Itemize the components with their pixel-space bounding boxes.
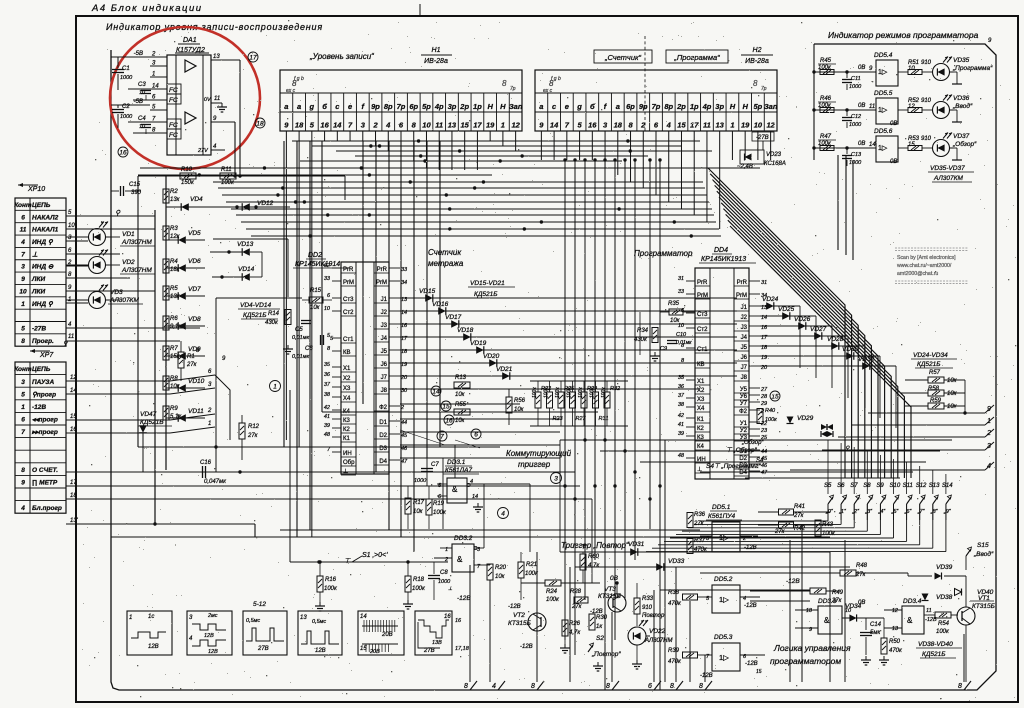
svg-text:12: 12: [892, 608, 898, 614]
svg-text:0,01мк: 0,01мк: [676, 340, 692, 346]
svg-text:VD40: VD40: [977, 589, 994, 596]
svg-text:470к: 470к: [889, 648, 903, 654]
svg-text:4р: 4р: [702, 102, 712, 111]
svg-text:R27: R27: [576, 416, 587, 422]
svg-text:DD2: DD2: [308, 252, 322, 259]
svg-text:„3“: „3“: [864, 509, 873, 515]
svg-text:14: 14: [432, 388, 440, 395]
svg-text:4,7к: 4,7к: [588, 563, 600, 569]
svg-text:S11: S11: [903, 483, 913, 489]
svg-text:C1: C1: [122, 66, 130, 72]
svg-text:Ст1: Ст1: [343, 337, 354, 343]
svg-text:23: 23: [760, 428, 768, 434]
svg-text:VD20: VD20: [483, 353, 500, 360]
svg-text:44: 44: [401, 420, 407, 426]
svg-text:8: 8: [21, 338, 25, 345]
svg-text:J4: J4: [741, 335, 748, 341]
svg-text:10к: 10к: [455, 392, 466, 398]
svg-text:„Обзор“: „Обзор“: [741, 440, 764, 446]
svg-text:C2: C2: [122, 104, 130, 110]
svg-text:38: 38: [678, 402, 685, 408]
svg-text:R39: R39: [668, 648, 680, 654]
svg-text:а: а: [297, 102, 301, 111]
svg-text:C15: C15: [129, 182, 141, 188]
svg-text:R32: R32: [610, 386, 620, 392]
svg-text:6: 6: [648, 683, 652, 690]
svg-text:VD4: VD4: [190, 196, 203, 203]
svg-text:DD5.4: DD5.4: [874, 52, 893, 59]
svg-text:1000: 1000: [849, 122, 862, 128]
svg-text:910: 910: [921, 98, 932, 104]
svg-text:16: 16: [444, 614, 451, 620]
svg-text:C7: C7: [431, 462, 439, 468]
svg-text:~2,4В: ~2,4В: [737, 164, 753, 170]
svg-text:⊥: ⊥: [448, 586, 452, 592]
svg-text:10к: 10к: [170, 384, 181, 390]
svg-text:8: 8: [670, 683, 674, 690]
svg-text:⊤ „Обзор“: ⊤ „Обзор“: [726, 446, 758, 454]
svg-text:36: 36: [678, 384, 685, 390]
svg-text:⊤: ⊤: [580, 544, 587, 551]
svg-text:ИВ-28а: ИВ-28а: [745, 58, 769, 65]
svg-text:13к: 13к: [170, 197, 181, 203]
svg-text:Обр: Обр: [343, 460, 355, 466]
svg-text:150к: 150к: [181, 180, 195, 186]
svg-text:9: 9: [21, 480, 25, 487]
svg-text:VD39: VD39: [936, 564, 953, 571]
svg-text:АЛ307НМ: АЛ307НМ: [644, 638, 672, 644]
svg-text:VD37: VD37: [953, 133, 970, 140]
svg-text:1000: 1000: [849, 160, 862, 166]
svg-text:КД521Б: КД521Б: [474, 291, 497, 298]
svg-text:7р: 7р: [761, 86, 767, 92]
svg-text:27V: 27V: [197, 148, 209, 154]
svg-text:ИНД ⚲: ИНД ⚲: [32, 239, 54, 246]
svg-text:470к: 470к: [668, 659, 682, 665]
svg-text:X1: X1: [697, 379, 705, 385]
svg-text:„Ввод“: „Ввод“: [973, 550, 994, 558]
svg-text:VD35: VD35: [953, 57, 970, 64]
svg-text:12: 12: [511, 121, 520, 130]
svg-text:29: 29: [760, 401, 767, 407]
svg-text:НАКАЛ1: НАКАЛ1: [32, 227, 59, 234]
svg-text:17,18: 17,18: [455, 646, 470, 652]
svg-text:PrМ: PrМ: [376, 280, 387, 286]
svg-text:R15: R15: [310, 288, 322, 294]
svg-text:КВ: КВ: [343, 350, 351, 356]
svg-text:⚲прогр: ⚲прогр: [32, 391, 56, 398]
svg-text:R41: R41: [794, 504, 805, 510]
svg-text:27: 27: [760, 387, 768, 393]
svg-text:PrМ: PrМ: [343, 280, 354, 286]
svg-text:„Программа“: „Программа“: [952, 65, 993, 72]
svg-text:DD3.2: DD3.2: [454, 535, 473, 542]
svg-text:19: 19: [741, 121, 750, 130]
svg-text:10к: 10к: [670, 318, 681, 324]
svg-text:ЦЕПЬ: ЦЕПЬ: [32, 366, 51, 373]
svg-text:2р: 2р: [459, 102, 469, 111]
svg-text:DD5.6: DD5.6: [874, 128, 893, 135]
svg-text:VD27: VD27: [810, 326, 827, 333]
svg-text:41: 41: [324, 414, 330, 420]
svg-text:VD22: VD22: [649, 628, 666, 635]
svg-text:4: 4: [385, 121, 391, 130]
svg-text:ИН: ИН: [343, 451, 352, 457]
svg-text:VD30: VD30: [842, 346, 859, 353]
svg-text:R3: R3: [170, 226, 178, 232]
svg-text:6: 6: [21, 417, 25, 424]
svg-text:8: 8: [606, 683, 610, 690]
svg-text:Конт: Конт: [14, 202, 32, 209]
svg-text:„0“: „0“: [825, 509, 834, 515]
svg-text:Н2: Н2: [753, 47, 762, 54]
svg-text:К1: К1: [697, 417, 704, 423]
svg-text:10к: 10к: [947, 391, 958, 397]
svg-text:2: 2: [400, 405, 404, 411]
svg-text:15: 15: [756, 669, 762, 675]
svg-text:VD4-VD14: VD4-VD14: [240, 302, 271, 309]
svg-text:J6: J6: [741, 355, 748, 361]
svg-text:D4: D4: [739, 470, 747, 476]
svg-text:⊥: ⊥: [32, 251, 38, 258]
svg-text:PrR: PrR: [343, 267, 354, 273]
svg-text:VD16: VD16: [432, 301, 449, 308]
svg-text:J5: J5: [741, 345, 748, 351]
svg-text:10к: 10к: [413, 509, 424, 515]
svg-text:16: 16: [320, 121, 329, 130]
svg-text:1: 1: [152, 72, 155, 78]
svg-text:⊥: ⊥: [343, 468, 348, 475]
svg-text:КТ315Б: КТ315Б: [508, 620, 531, 627]
svg-text:20В: 20В: [369, 649, 380, 655]
svg-text:„8“: „8“: [930, 509, 939, 515]
svg-text:VD18: VD18: [457, 327, 474, 334]
svg-text:12: 12: [766, 121, 775, 130]
svg-text:S4: S4: [756, 458, 764, 464]
svg-text:48: 48: [678, 453, 685, 459]
svg-text:ЛКИ: ЛКИ: [31, 276, 45, 283]
svg-text:14: 14: [360, 614, 367, 620]
svg-text:1▷: 1▷: [878, 145, 888, 152]
svg-text:5р: 5р: [754, 102, 763, 111]
svg-text:R5: R5: [170, 286, 178, 292]
svg-text:7: 7: [21, 429, 25, 436]
svg-text:а: а: [539, 102, 543, 111]
svg-text:10к: 10к: [514, 407, 525, 413]
svg-text:11: 11: [214, 96, 220, 102]
svg-text:„Программа“: „Программа“: [673, 53, 720, 62]
svg-text:3р: 3р: [448, 102, 457, 111]
svg-text:FC: FC: [169, 97, 178, 104]
svg-text:6: 6: [21, 214, 25, 221]
svg-text:1: 1: [208, 421, 211, 427]
svg-text:33: 33: [401, 267, 408, 273]
svg-text:R24: R24: [546, 589, 558, 595]
svg-text:27к: 27к: [247, 433, 259, 439]
svg-text:R2: R2: [170, 189, 178, 195]
svg-text:R16: R16: [325, 577, 337, 583]
svg-text:КР145ИК1913: КР145ИК1913: [701, 256, 746, 263]
svg-text:1: 1: [21, 301, 25, 308]
svg-text:R17: R17: [413, 500, 425, 506]
svg-text:8: 8: [699, 683, 703, 690]
svg-text:R60: R60: [588, 554, 600, 560]
svg-text:„Счетчик“: „Счетчик“: [604, 53, 642, 62]
svg-text:&: &: [824, 616, 830, 625]
svg-text:17: 17: [249, 54, 257, 61]
svg-text:VD35-VD37: VD35-VD37: [930, 165, 965, 172]
svg-text:15: 15: [461, 121, 470, 130]
svg-text:КД521Б: КД521Б: [243, 312, 266, 319]
svg-text:100к: 100к: [532, 387, 538, 398]
svg-text:27к: 27к: [186, 362, 198, 368]
svg-text:10к: 10к: [947, 404, 958, 410]
svg-text:PrR: PrR: [377, 267, 388, 273]
svg-text:48: 48: [324, 432, 331, 438]
svg-text:R30: R30: [596, 615, 608, 621]
svg-text:ЦЕПЬ: ЦЕПЬ: [32, 202, 51, 209]
svg-text:ХР7: ХР7: [39, 352, 54, 359]
svg-text:R59: R59: [930, 398, 942, 404]
svg-text:R58: R58: [928, 386, 940, 392]
svg-text:D3: D3: [379, 446, 387, 452]
svg-text:АЛ307КМ: АЛ307КМ: [933, 175, 963, 182]
svg-text:8: 8: [464, 683, 468, 690]
svg-text:VD28: VD28: [827, 336, 844, 343]
svg-text:„1“: „1“: [838, 509, 847, 515]
svg-text:КР145ИК1914: КР145ИК1914: [295, 261, 340, 268]
svg-text:К4: К4: [697, 444, 704, 450]
svg-text:0,5мс: 0,5мс: [246, 618, 260, 624]
svg-text:VD21: VD21: [496, 366, 513, 373]
svg-text:◂◂прогр: ◂◂прогр: [32, 417, 58, 424]
svg-text:430к: 430к: [634, 337, 648, 343]
svg-text:АЛ307КМ: АЛ307КМ: [109, 297, 139, 304]
svg-text:13: 13: [448, 121, 457, 130]
svg-text:R56: R56: [514, 398, 526, 404]
svg-text:R4: R4: [170, 259, 178, 265]
svg-text:X2: X2: [697, 388, 705, 394]
svg-text:R40: R40: [765, 408, 776, 414]
svg-text:У7: У7: [740, 401, 748, 407]
svg-text:S14: S14: [942, 483, 953, 489]
svg-text:18: 18: [256, 120, 264, 127]
svg-text:DD3.1: DD3.1: [447, 459, 466, 466]
svg-text:VD7: VD7: [188, 286, 201, 293]
svg-text:DD3.4: DD3.4: [903, 598, 922, 605]
svg-text:программатором: программатором: [770, 656, 841, 666]
svg-text:S10: S10: [890, 483, 901, 489]
svg-text:R14: R14: [268, 311, 280, 317]
svg-text:13к: 13к: [170, 294, 181, 300]
svg-text:10: 10: [68, 223, 75, 229]
svg-text:0В: 0В: [890, 159, 897, 165]
svg-text:4: 4: [501, 510, 505, 517]
svg-text:VD24: VD24: [762, 296, 779, 303]
svg-text:VT2: VT2: [513, 612, 525, 619]
svg-text:S2: S2: [596, 635, 604, 642]
svg-text:38: 38: [324, 392, 331, 398]
svg-text:„Обзор“: „Обзор“: [952, 140, 977, 148]
svg-text:У5: У5: [740, 387, 748, 393]
svg-text:ИВ-28а: ИВ-28а: [424, 58, 448, 65]
svg-text:VD11: VD11: [188, 408, 204, 415]
svg-text:КТ315Б: КТ315Б: [972, 603, 995, 610]
svg-text:33: 33: [324, 276, 331, 282]
svg-text:4: 4: [987, 463, 991, 470]
svg-text:910: 910: [921, 60, 932, 66]
svg-text:R47: R47: [820, 134, 832, 140]
svg-text:VD33: VD33: [668, 558, 685, 565]
svg-text:4: 4: [20, 239, 25, 246]
svg-text:-12В: -12В: [745, 661, 758, 667]
svg-text:Ст2: Ст2: [697, 327, 708, 333]
svg-text:Н1: Н1: [432, 47, 441, 54]
svg-text:КВ: КВ: [697, 362, 705, 368]
svg-text:3: 3: [987, 443, 991, 450]
svg-text:R48: R48: [856, 563, 868, 569]
svg-text:11: 11: [435, 121, 443, 130]
svg-text:PrМ: PrМ: [697, 293, 708, 299]
svg-text:14: 14: [869, 142, 876, 148]
svg-text:12В: 12В: [148, 644, 159, 650]
svg-text:1р: 1р: [690, 102, 699, 111]
svg-text:X3: X3: [343, 386, 351, 392]
svg-text:-12В: -12В: [786, 578, 800, 585]
svg-text:9: 9: [21, 276, 25, 283]
svg-text:f g b: f g b: [551, 76, 561, 82]
svg-text:7р: 7р: [397, 102, 406, 111]
svg-text:1▷: 1▷: [878, 69, 888, 76]
svg-text:У2: У2: [740, 428, 748, 434]
svg-text:16: 16: [70, 427, 77, 433]
svg-text:www.chat.ru/~amt2000/: www.chat.ru/~amt2000/: [897, 263, 952, 269]
svg-text:К561ЛА7: К561ЛА7: [445, 467, 472, 474]
svg-text:1р: 1р: [473, 102, 482, 111]
svg-text:S13: S13: [929, 483, 940, 489]
svg-text:4: 4: [20, 505, 25, 512]
svg-text:J1: J1: [381, 297, 388, 303]
svg-text:„7“: „7“: [917, 509, 926, 515]
svg-text:g: g: [309, 102, 315, 111]
svg-text:VD2: VD2: [122, 259, 135, 266]
svg-text:2мс: 2мс: [207, 613, 218, 619]
svg-text:R9: R9: [170, 406, 178, 412]
svg-text:⚲: ⚲: [845, 445, 850, 452]
svg-text:Ф2: Ф2: [739, 409, 748, 415]
svg-text:100к: 100к: [567, 387, 573, 398]
svg-text:Триггер „Повтор“: Триггер „Повтор“: [561, 541, 629, 550]
svg-text:DD5.2: DD5.2: [714, 576, 733, 583]
svg-text:„Ввод“: „Ввод“: [952, 102, 973, 110]
svg-text:0В: 0В: [858, 103, 865, 109]
svg-text:R6: R6: [170, 316, 178, 322]
svg-text:S12: S12: [916, 483, 927, 489]
svg-text:100к: 100к: [578, 387, 584, 398]
svg-text:VD38: VD38: [936, 594, 953, 601]
svg-text:VD29: VD29: [797, 415, 814, 422]
svg-text:DD5.1: DD5.1: [712, 504, 731, 511]
svg-text:R26: R26: [569, 621, 581, 627]
svg-text:б: б: [322, 102, 327, 111]
svg-text:Ст1: Ст1: [697, 347, 708, 353]
svg-text:27к: 27к: [793, 513, 805, 519]
svg-text:0В: 0В: [890, 121, 897, 127]
svg-text:а: а: [616, 102, 620, 111]
svg-text:13: 13: [300, 615, 307, 621]
svg-text:X4: X4: [343, 396, 351, 402]
svg-text:VT3: VT3: [604, 586, 616, 593]
svg-text:-12В: -12В: [32, 404, 46, 411]
svg-text:&: &: [457, 555, 463, 564]
svg-text:amt2000@chat.ru: amt2000@chat.ru: [897, 271, 938, 277]
svg-text:0,01мк: 0,01мк: [292, 354, 309, 360]
svg-text:1000: 1000: [849, 84, 862, 90]
svg-text:31: 31: [761, 280, 767, 286]
svg-text:J1: J1: [741, 305, 748, 311]
svg-text:R55: R55: [455, 402, 467, 408]
svg-text:DD5.3: DD5.3: [714, 634, 733, 641]
svg-text:VD10: VD10: [188, 378, 205, 385]
svg-text:X1: X1: [343, 366, 351, 372]
svg-text:100к: 100к: [555, 387, 561, 398]
svg-text:100к: 100к: [544, 387, 550, 398]
svg-text:7: 7: [21, 251, 25, 258]
svg-text:R36: R36: [694, 512, 706, 518]
svg-text:ХР10: ХР10: [27, 186, 45, 193]
svg-text:100к: 100к: [412, 586, 426, 592]
svg-text:5: 5: [21, 325, 25, 332]
svg-text:11: 11: [20, 227, 27, 234]
svg-text:0,5мс: 0,5мс: [312, 619, 326, 625]
svg-text:4р: 4р: [434, 102, 444, 111]
svg-text:▸▸прогр: ▸▸прогр: [31, 429, 58, 436]
svg-text:КС168А: КС168А: [764, 161, 786, 167]
svg-text:10к: 10к: [947, 378, 958, 384]
svg-text:АЛ307НМ: АЛ307НМ: [121, 267, 152, 274]
svg-text:R33: R33: [642, 596, 654, 602]
svg-text:31: 31: [678, 276, 684, 282]
svg-text:47: 47: [401, 459, 408, 465]
svg-text:D1: D1: [379, 420, 387, 426]
svg-text:FC: FC: [169, 132, 178, 139]
svg-text:FC: FC: [169, 122, 178, 129]
svg-text:3р: 3р: [715, 102, 724, 111]
svg-text:S15: S15: [977, 542, 989, 549]
svg-text:100к: 100к: [324, 586, 338, 592]
svg-text:„Уровень записи“: „Уровень записи“: [309, 52, 374, 61]
svg-text:11: 11: [869, 104, 875, 110]
svg-text:Индикатор уровня записи-восп: Индикатор уровня записи-воспроизведения: [106, 22, 323, 32]
svg-text:4: 4: [492, 683, 496, 690]
svg-text:9р: 9р: [371, 102, 380, 111]
svg-text:∏ МЕТР: ∏ МЕТР: [32, 480, 58, 487]
svg-text:16: 16: [588, 121, 597, 130]
svg-text:1000: 1000: [120, 114, 133, 120]
svg-text:R43: R43: [822, 522, 834, 528]
svg-text:13: 13: [716, 121, 725, 130]
svg-text:35: 35: [324, 362, 331, 368]
svg-text:0В: 0В: [858, 600, 865, 606]
svg-text:Счетчик: Счетчик: [428, 248, 462, 257]
svg-text:34: 34: [401, 280, 407, 286]
svg-text:44: 44: [761, 449, 767, 455]
svg-text:R11: R11: [221, 167, 232, 173]
svg-text:Ст3: Ст3: [343, 297, 354, 303]
svg-text:100к: 100к: [822, 531, 836, 537]
svg-text:-12В: -12В: [700, 673, 713, 679]
svg-text:е: е: [565, 102, 569, 111]
